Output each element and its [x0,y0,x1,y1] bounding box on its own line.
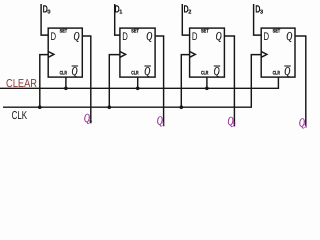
wire U3 clock [181,55,189,108]
junction U1 clock [38,105,42,109]
U3 pin Q-bar overbar [214,65,221,67]
svg-text:1: 1 [162,122,165,128]
U1 pin Q-bar overbar [72,65,79,67]
svg-text:Q: Q [74,29,80,43]
node Q1 label [157,114,165,129]
node D3 label [255,3,263,15]
svg-text:SET: SET [273,28,281,34]
D flip-flop U3 box [190,28,225,77]
svg-text:Q: Q [286,29,292,43]
wire U1 clear [65,77,67,88]
wire U2 clear [137,77,139,88]
node D1 label [115,3,123,15]
U2 pin labels [122,28,152,78]
clock triangle U1 [48,52,54,58]
U4 pin labels [264,28,293,78]
wire U4 clear [277,77,279,88]
wire U4 Q output [295,36,306,127]
wire U3 Q output [224,36,234,126]
junction U1 clear [64,87,68,91]
U2 pin Q-bar overbar [144,65,151,67]
node D2 label [184,3,192,15]
wire U1 Q output [82,36,91,123]
svg-text:CLR: CLR [201,70,208,76]
node Q3 label [299,115,307,130]
svg-text:2: 2 [233,122,236,129]
clock triangle U3 [190,52,196,58]
svg-text:3: 3 [304,123,307,130]
junction U3 clear [205,87,209,91]
svg-text:SET: SET [201,28,209,34]
U3 pin labels [192,28,222,78]
svg-text:1: 1 [119,9,122,15]
svg-text:SET: SET [60,28,68,34]
wire U4 clock [251,55,261,108]
wire U3 clear [206,77,208,88]
svg-text:CLEAR: CLEAR [6,78,37,90]
svg-text:D: D [51,31,57,43]
node D0 label [43,3,51,15]
U4 pin Q-bar overbar [284,65,291,67]
junction U2 clock [108,105,112,109]
D flip-flop U2 box [120,28,155,77]
wire D0 input [41,4,48,35]
svg-text:0: 0 [47,9,50,15]
clock triangle U4 [261,52,267,58]
svg-text:CLK: CLK [12,110,28,122]
wire D1 input [115,4,120,35]
D flip-flop U4 box [261,28,295,77]
U1 pin labels [51,28,80,78]
wire CLEAR bus [0,87,279,89]
svg-text:D: D [122,31,128,43]
svg-text:CLR: CLR [273,70,280,76]
svg-text:SET: SET [131,28,139,34]
junction U3 clock [180,105,184,109]
svg-text:Q: Q [146,29,152,43]
wire U2 clock [109,55,120,108]
svg-text:CLR: CLR [60,70,67,76]
wire U2 Q output [155,36,164,126]
node Q0 label [84,111,92,126]
clock triangle U2 [120,52,126,58]
svg-text:CLR: CLR [131,70,138,76]
svg-text:Q: Q [216,29,222,43]
svg-text:D: D [264,31,270,43]
junction U2 clear [136,87,140,91]
svg-text:0: 0 [89,119,92,126]
D flip-flop U1 box [48,28,82,77]
wire CLK bus [3,106,252,108]
node Q2 label [228,114,236,129]
svg-text:2: 2 [188,9,191,15]
wire D3 input [254,4,262,35]
svg-text:3: 3 [260,9,263,15]
wire U1 clock [40,55,48,108]
wire D2 input [182,4,189,35]
svg-text:D: D [192,31,198,43]
